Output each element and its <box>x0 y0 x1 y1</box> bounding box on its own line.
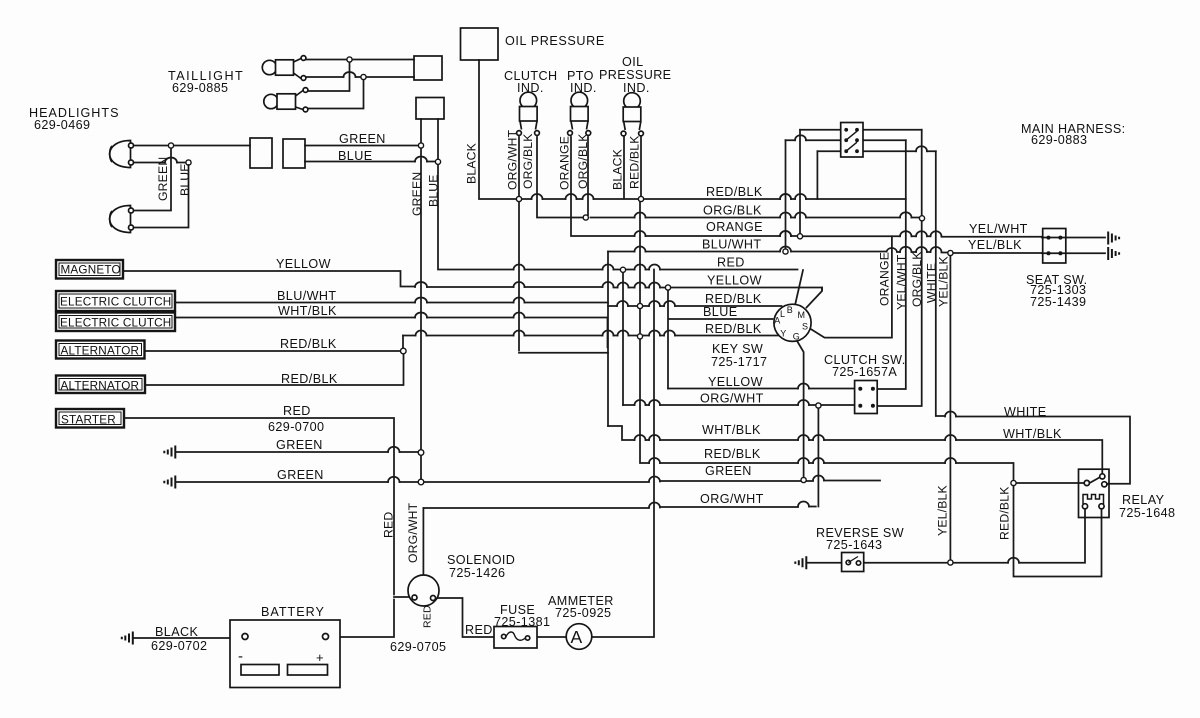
svg-text:A: A <box>774 316 780 326</box>
svg-text:RED/BLK: RED/BLK <box>280 337 337 351</box>
svg-text:ORANGE: ORANGE <box>706 220 763 234</box>
svg-text:725-1643: 725-1643 <box>826 538 882 552</box>
svg-text:629-0885: 629-0885 <box>172 81 228 95</box>
svg-text:GREEN: GREEN <box>277 468 324 482</box>
svg-text:ORG/WHT: ORG/WHT <box>700 392 764 406</box>
svg-text:G: G <box>793 332 800 342</box>
svg-text:YELLOW: YELLOW <box>707 274 762 288</box>
svg-text:725-1657A: 725-1657A <box>832 365 897 379</box>
svg-text:629-0700: 629-0700 <box>268 420 324 434</box>
svg-text:RELAY: RELAY <box>1122 493 1165 507</box>
svg-text:GREEN: GREEN <box>705 464 752 478</box>
svg-text:PRESSURE: PRESSURE <box>599 68 671 82</box>
svg-text:BLU/WHT: BLU/WHT <box>702 238 761 252</box>
svg-text:725-1439: 725-1439 <box>1030 295 1086 309</box>
svg-text:ELECTRIC CLUTCH: ELECTRIC CLUTCH <box>60 317 171 330</box>
svg-text:ORANGE: ORANGE <box>558 136 572 190</box>
svg-text:RED: RED <box>382 512 396 538</box>
svg-text:SOLENOID: SOLENOID <box>447 553 515 567</box>
svg-text:IND.: IND. <box>623 81 650 95</box>
svg-text:ORG/BLK: ORG/BLK <box>521 133 535 189</box>
svg-text:GREEN: GREEN <box>339 132 386 146</box>
svg-text:BLUE: BLUE <box>338 149 373 163</box>
svg-text:KEY SW: KEY SW <box>712 342 763 356</box>
svg-text:BLACK: BLACK <box>155 625 198 639</box>
svg-text:ORG/BLK: ORG/BLK <box>910 251 924 307</box>
svg-text:BATTERY: BATTERY <box>261 605 325 619</box>
svg-text:YELLOW: YELLOW <box>276 257 331 271</box>
svg-text:GREEN: GREEN <box>276 438 323 452</box>
svg-text:YEL/WHT: YEL/WHT <box>969 222 1028 236</box>
svg-text:WHITE: WHITE <box>1004 405 1047 419</box>
svg-text:YELLOW: YELLOW <box>708 375 763 389</box>
svg-text:Y: Y <box>780 329 786 339</box>
svg-text:BLUE: BLUE <box>427 174 441 207</box>
svg-text:OIL: OIL <box>622 55 644 69</box>
svg-text:S: S <box>802 322 808 332</box>
svg-text:BLUE: BLUE <box>178 163 192 196</box>
svg-text:ORG/WHT: ORG/WHT <box>700 492 764 506</box>
svg-text:RED/BLK: RED/BLK <box>998 486 1012 540</box>
svg-text:RED/BLK: RED/BLK <box>706 185 763 199</box>
svg-text:629-0469: 629-0469 <box>34 118 90 132</box>
svg-text:YEL/BLK: YEL/BLK <box>936 485 950 536</box>
svg-text:ORG/BLK: ORG/BLK <box>703 204 762 218</box>
svg-text:RED/BLK: RED/BLK <box>705 322 762 336</box>
svg-text:BLACK: BLACK <box>611 149 625 190</box>
svg-text:725-1717: 725-1717 <box>711 355 767 369</box>
svg-text:IND.: IND. <box>517 81 544 95</box>
svg-text:BLACK: BLACK <box>465 143 479 184</box>
svg-text:725-0925: 725-0925 <box>555 606 611 620</box>
svg-text:L: L <box>780 309 785 319</box>
svg-text:725-1426: 725-1426 <box>449 566 505 580</box>
svg-text:WHT/BLK: WHT/BLK <box>278 304 337 318</box>
svg-text:RED: RED <box>717 256 745 270</box>
svg-text:B: B <box>787 305 793 315</box>
svg-text:ORG/BLK: ORG/BLK <box>576 133 590 189</box>
svg-text:ALTERNATOR: ALTERNATOR <box>61 345 140 358</box>
svg-text:RED: RED <box>465 623 493 637</box>
svg-text:RED/BLK: RED/BLK <box>628 135 642 189</box>
svg-text:725-1381: 725-1381 <box>494 615 550 629</box>
svg-text:RED/BLK: RED/BLK <box>705 292 762 306</box>
svg-text:RED/BLK: RED/BLK <box>281 372 338 386</box>
svg-text:ALTERNATOR: ALTERNATOR <box>61 380 140 393</box>
svg-text:GREEN: GREEN <box>410 172 424 216</box>
svg-text:MAGNETO: MAGNETO <box>61 264 121 277</box>
svg-text:A: A <box>571 627 583 647</box>
svg-text:YEL/WHT: YEL/WHT <box>895 254 909 310</box>
svg-text:BLUE: BLUE <box>703 305 738 319</box>
svg-text:629-0702: 629-0702 <box>151 639 207 653</box>
svg-text:WHT/BLK: WHT/BLK <box>1003 427 1062 441</box>
svg-text:+: + <box>316 650 324 665</box>
svg-text:629-0705: 629-0705 <box>390 640 446 654</box>
svg-text:ELECTRIC CLUTCH: ELECTRIC CLUTCH <box>60 296 171 309</box>
svg-text:OIL PRESSURE: OIL PRESSURE <box>505 34 605 48</box>
svg-text:RED: RED <box>283 404 311 418</box>
svg-text:ORG/WHT: ORG/WHT <box>506 129 520 190</box>
svg-text:GREEN: GREEN <box>156 157 170 201</box>
svg-text:RED/BLK: RED/BLK <box>704 447 761 461</box>
svg-text:RED: RED <box>422 605 434 628</box>
svg-text:M: M <box>798 310 806 320</box>
svg-text:725-1648: 725-1648 <box>1119 506 1175 520</box>
svg-text:ORANGE: ORANGE <box>878 252 892 306</box>
svg-text:ORG/WHT: ORG/WHT <box>406 502 420 563</box>
svg-text:YEL/BLK: YEL/BLK <box>937 256 951 307</box>
svg-text:YEL/BLK: YEL/BLK <box>968 238 1022 252</box>
svg-text:629-0883: 629-0883 <box>1031 133 1087 147</box>
svg-text:STARTER: STARTER <box>61 414 116 427</box>
svg-text:-: - <box>238 648 243 665</box>
svg-text:IND.: IND. <box>570 81 597 95</box>
svg-text:BLU/WHT: BLU/WHT <box>277 289 336 303</box>
svg-text:WHT/BLK: WHT/BLK <box>702 423 761 437</box>
